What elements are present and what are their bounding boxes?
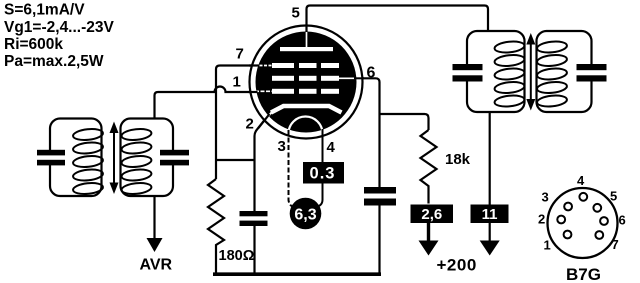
grid g1 row [272, 89, 294, 94]
current box 2,6 [411, 205, 454, 224]
supply arrow for 2,6 branch [427, 223, 430, 242]
svg-text:6,3: 6,3 [294, 207, 316, 224]
T2 coupling arrow [526, 33, 535, 111]
svg-text:6: 6 [367, 65, 376, 82]
B7G pin 5 [593, 204, 601, 212]
svg-text:+200: +200 [437, 256, 477, 275]
capacitor C2 top plate [160, 150, 189, 156]
wire AVR lead [153, 196, 155, 239]
B7G pin 2 [557, 216, 565, 224]
svg-text:Pa=max.2,5W: Pa=max.2,5W [4, 53, 104, 70]
capacitor C5 top plate [453, 64, 483, 70]
svg-text:5: 5 [610, 189, 617, 204]
cathode [271, 106, 342, 113]
wire screen feed branch to R2 [380, 114, 429, 130]
capacitor C1 top plate [37, 150, 65, 156]
capacitor C6 bottom plate [577, 75, 607, 81]
B7G socket outline [548, 188, 618, 258]
heater arch [289, 117, 323, 143]
svg-text:4: 4 [577, 173, 585, 188]
svg-text:11: 11 [482, 206, 498, 223]
svg-text:Vg1=-2,4...-23V: Vg1=-2,4...-23V [4, 19, 115, 36]
svg-text:6: 6 [619, 213, 626, 228]
current box 11 [471, 205, 509, 224]
grid g2 row [272, 76, 294, 81]
wire g3 to cathode network (pin 7 lead down) [216, 66, 258, 180]
wire stub pin 7 through envelope [249, 64, 259, 66]
resistor R1 180ohm [208, 179, 224, 274]
svg-text:2: 2 [246, 116, 254, 133]
capacitor C1 bottom plate [37, 160, 65, 166]
capacitor C3 bottom plate [240, 221, 268, 226]
svg-text:3: 3 [278, 138, 286, 155]
svg-text:AVR: AVR [140, 257, 173, 274]
wire stub pin 5 through envelope [305, 25, 307, 33]
wire cathode junction branch [216, 159, 255, 161]
svg-text:1: 1 [233, 74, 241, 91]
capacitor C6 top plate [577, 64, 607, 70]
svg-text:5: 5 [292, 5, 300, 22]
svg-text:180Ω: 180Ω [219, 248, 255, 264]
IF transformer T1 right can [121, 119, 174, 197]
supply arrow for 11 branch [480, 241, 500, 256]
grid g3 row [272, 63, 294, 68]
svg-text:B7G: B7G [566, 265, 601, 283]
capacitor C5 bottom plate [453, 75, 483, 81]
svg-text:1: 1 [544, 238, 551, 253]
B7G pin 1 [564, 231, 572, 239]
svg-text:3: 3 [542, 190, 549, 205]
grid g3 lead [255, 65, 272, 67]
wire C3 to ground rail [253, 226, 255, 273]
current box 0.3 [303, 162, 344, 184]
ground rail wire [213, 272, 381, 276]
cathode lead pin 2 [263, 113, 272, 123]
svg-text:2,6: 2,6 [421, 206, 442, 223]
svg-text:18k: 18k [445, 151, 471, 168]
capacitor C3 top plate [240, 211, 268, 216]
coil L4 [537, 40, 568, 108]
svg-text:7: 7 [612, 237, 619, 252]
IF transformer T1 left can [50, 119, 102, 197]
svg-text:Ri=600k: Ri=600k [4, 36, 63, 53]
wire T2 primary to supply [489, 112, 491, 245]
B7G pin 7 [595, 231, 603, 239]
tube V1 envelope [250, 26, 363, 139]
capacitor C2 bottom plate [160, 160, 189, 166]
tube V1 shaded interior [256, 32, 357, 133]
svg-text:S=6,1mA/V: S=6,1mA/V [4, 2, 85, 19]
wire anode pin 5 to T2 [307, 6, 489, 32]
resistor R2 18k [421, 130, 437, 204]
wire cathode pin 2 down [255, 118, 267, 212]
coil L3 [494, 40, 525, 108]
AVR arrowhead [147, 238, 163, 252]
T1 coupling arrow [110, 122, 119, 195]
anode plate [280, 47, 333, 51]
grid g1 lead [255, 90, 272, 92]
capacitor C4 bottom plate [364, 199, 396, 206]
wire stub pin 6 through envelope [354, 77, 364, 79]
B7G pin 4 [579, 193, 587, 201]
svg-text:4: 4 [327, 139, 336, 156]
capacitor C4 top plate [364, 187, 396, 194]
coil L1 [73, 128, 104, 196]
svg-text:0.3: 0.3 [310, 165, 336, 183]
coil L2 [121, 128, 152, 196]
wire stub pin 1 through envelope [249, 91, 258, 93]
svg-text:7: 7 [236, 46, 244, 63]
heater lead pin 4 [319, 129, 323, 206]
grid g2 lead [339, 77, 357, 79]
wire stub pin 2 through envelope [258, 114, 270, 129]
output transformer T2 right can [537, 31, 592, 112]
heater lead pin 3 (dashed) [289, 130, 294, 207]
voltage circle 6,3 [290, 198, 322, 230]
B7G pin 6 [600, 217, 608, 225]
B7G pin 3 [564, 203, 572, 211]
wire T1 to grid g1 with hop over cathode line [155, 87, 257, 119]
output transformer T2 left can [467, 31, 525, 112]
wire screen pin 6 down [354, 78, 380, 187]
wire C4 to ground rail [378, 206, 380, 274]
anode lead pin 5 [306, 31, 308, 47]
svg-text:2: 2 [538, 212, 545, 227]
